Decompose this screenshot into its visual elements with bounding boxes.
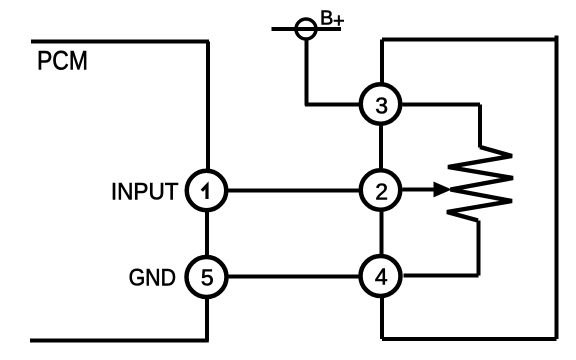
svg-text:3: 3 <box>375 92 388 118</box>
wire terminal 3 to terminal 2 <box>379 124 383 171</box>
terminal 4 circle <box>361 256 401 296</box>
svg-text:INPUT: INPUT <box>111 178 179 205</box>
wire terminal 1 to terminal 2 <box>227 189 361 193</box>
svg-text:5: 5 <box>201 265 214 291</box>
svg-text:+: + <box>333 11 345 33</box>
terminal 3 circle <box>361 84 401 124</box>
B+ terminal bar <box>272 27 342 31</box>
svg-text:4: 4 <box>375 264 388 290</box>
terminal 1 circle <box>187 171 227 211</box>
wiper arrowhead <box>434 182 451 196</box>
wire from B+ down <box>305 38 309 106</box>
svg-text:GND: GND <box>129 263 176 290</box>
wire terminal 3 to potentiometer top <box>403 103 481 107</box>
potentiometer top lead <box>478 105 482 148</box>
svg-text:PCM: PCM <box>37 46 88 76</box>
sensor box right edge <box>555 36 559 340</box>
wire terminal 2 to terminal 4 <box>380 210 384 256</box>
terminal 5 circle <box>187 257 227 297</box>
svg-text:2: 2 <box>375 178 388 204</box>
potentiometer bottom lead <box>477 221 481 276</box>
sensor box top edge <box>382 38 557 42</box>
sensor box left edge upper segment <box>380 40 384 85</box>
wire below terminal 5 <box>205 297 209 341</box>
sensor box bottom edge <box>382 337 557 341</box>
wiper wire from terminal 2 <box>403 188 437 192</box>
wire potentiometer bottom to terminal 4 <box>404 274 479 278</box>
B+ terminal circle <box>296 19 316 39</box>
potentiometer resistor zigzag <box>447 147 513 221</box>
PCM box right edge upper segment <box>206 42 210 172</box>
PCM box top edge <box>31 40 209 44</box>
wire from B+ to terminal 3 <box>305 103 359 107</box>
wire below terminal 4 <box>380 297 384 340</box>
PCM box bottom edge <box>30 339 209 343</box>
wire between terminal 1 and terminal 5 <box>205 211 209 258</box>
wire terminal 5 to terminal 4 <box>227 275 361 279</box>
terminal 2 circle <box>361 170 401 210</box>
svg-text:B: B <box>320 7 333 29</box>
pin number 1 <box>202 185 207 199</box>
